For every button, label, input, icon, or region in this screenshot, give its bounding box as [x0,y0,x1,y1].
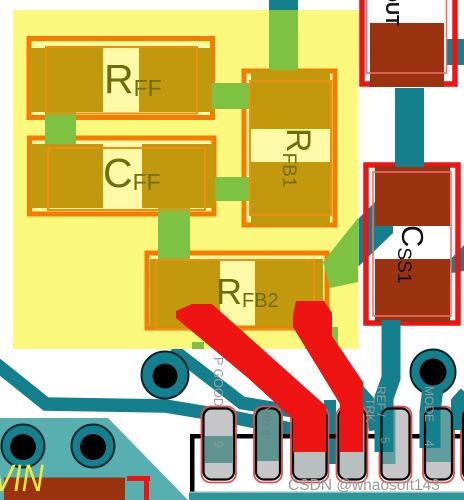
pin 9 outline [204,409,235,480]
pin 7 pad [291,407,329,483]
pin 6 pad [337,407,368,483]
pad VIN bottom left [4,478,125,500]
svg-text:5: 5 [378,437,392,444]
copper bar bottom right [189,492,464,500]
pin 8 VIN pad [254,407,282,483]
pad VIN red outline corner [127,476,150,500]
wire sliver between red bars [324,400,336,464]
wire fragment parallel to red trace A [172,349,298,412]
wire RFF right pad to RFB1 top pad [212,83,255,109]
capacitor CSS1 courtyard [366,165,458,323]
wire green area right of RFB2 to CSS1 [323,218,358,288]
via V3 [2,425,45,468]
svg-text:VIN: VIN [0,458,44,500]
wire CSS1 bottom to pin5 S-bend [384,320,391,452]
pin 4 outline [425,409,452,480]
svg-text:OUT: OUT [382,0,402,26]
resistor RFB1 courtyard [244,71,335,225]
wire CSS1 bottom pad to right edge [448,245,464,273]
wire top vertical trace (green part under yellow) [269,10,298,70]
resistor RFB1 pad 1 [251,70,330,129]
capacitor CSS1 pad 2 [375,259,450,322]
svg-text:MODE: MODE [422,386,436,422]
pin 5 outline [382,409,410,480]
pin 6 outline [339,409,366,480]
via V4 [72,425,115,468]
wire red trace A from RFB2 left pad to pin 7 [176,304,326,452]
via V1 [142,352,189,399]
resistor RFB2 courtyard [147,253,327,328]
capacitor CSS1 pad 1 [375,166,450,226]
wire OUT right stub [446,39,464,65]
wire RFB2 right pad going down (green part) [305,327,338,349]
wire via2 to pin4 [430,388,433,448]
wire green sliver at yellow lower edge [192,342,204,349]
capacitor COUT courtyard [362,0,455,84]
capacitor CFF courtyard [30,138,215,214]
wire red trace B from RFB2 right pad to pin 6 [293,301,363,452]
svg-text:TRK: TRK [363,398,377,422]
capacitor CFF body outline [48,148,205,210]
wire CFF right pad to RFB1 bottom pad [210,177,255,201]
svg-text:P GOOD: P GOOD [211,357,225,407]
resistor RFF body outline [46,47,197,114]
pin 4 MODE pad [423,407,454,483]
resistor RFF assembly area [33,43,209,117]
wire CFF bottom to RFB2 left pad [158,205,190,262]
resistor RFB2 body outline [156,260,314,329]
capacitor CFF pad 1 [30,144,103,208]
wire RFF left pad down to CFF [45,111,76,146]
pin 5 REF/TRK pad [380,407,412,483]
resistor RFB1 pad 2 [251,162,330,226]
resistor RFB2 assembly area [150,256,324,325]
wire RFB2 right pad down to pin5 [314,328,378,430]
IC body outline left edge [190,434,195,500]
wire long trace from left edge to pins [0,364,332,439]
resistor RFB2 pad 1 [150,259,220,327]
via V2 [411,350,456,395]
capacitor CSS1 inner outline [373,172,451,316]
wire right edge to pin3 [458,393,464,430]
pin 9 PGOOD pad [202,407,237,483]
yellow highlight overlay region [13,10,359,349]
svg-text:9: 9 [211,441,225,448]
resistor RFB1 body outline [250,81,331,215]
capacitor CFF assembly area [33,140,210,210]
resistor RFF courtyard [29,39,213,118]
wire diagonal trace to CSS1 top pad [358,184,393,267]
capacitor CFF pad 2 [142,144,215,208]
svg-text:VIN 8: VIN 8 [259,407,271,436]
resistor RFF pad 2 [139,48,212,112]
svg-text:4: 4 [422,440,436,447]
copper pour polygon bottom left [0,418,188,500]
pin 3 pad partial [461,407,464,483]
svg-text:CSDN @whaosoft143: CSDN @whaosoft143 [288,477,440,494]
resistor RFB1 assembly area [247,74,332,222]
wire OUT bottom to CSS1 [395,88,424,166]
pin 8 outline [256,409,280,480]
resistor RFF pad 1 [30,48,103,112]
resistor RFB2 pad 2 [255,259,323,327]
capacitor COUT pad [370,23,444,87]
wire OUT bottom to CSS1 over outline [395,160,424,167]
capacitor COUT inner outline [367,0,447,73]
pin 3 outline [463,409,464,480]
IC body outline top edge [190,434,464,439]
pin 7 outline [293,409,327,480]
wire top vertical trace to RFB1 [269,0,298,70]
